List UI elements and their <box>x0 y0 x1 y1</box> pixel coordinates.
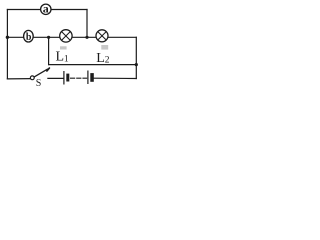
battery cell 2 <box>88 71 94 85</box>
scan ghost under lamp L2 <box>101 45 108 50</box>
switch S <box>30 68 49 89</box>
svg-text:b: b <box>26 32 32 43</box>
ammeter b <box>24 30 34 42</box>
node: left junction on rail <box>6 36 9 39</box>
svg-text:L: L <box>96 51 105 66</box>
battery cell 1 <box>64 71 69 85</box>
wire: right rail <box>135 37 137 78</box>
wire: top branch <box>7 9 87 11</box>
label L1 <box>56 50 69 65</box>
scan ghost under lamp L1 <box>60 46 67 49</box>
wire: left rail <box>6 10 8 79</box>
lamp L2 <box>96 30 108 42</box>
wire: battery dashed link <box>71 77 87 79</box>
lamp L1 <box>60 30 72 42</box>
node: bypass meets right rail <box>135 63 138 66</box>
wire: bottom left to switch <box>7 78 30 80</box>
wire: switch to battery <box>48 77 63 79</box>
node: bypass tap B <box>47 36 50 39</box>
svg-text:1: 1 <box>64 54 69 64</box>
node A (drop meets middle branch) <box>85 36 88 39</box>
wire: middle branch <box>7 36 136 38</box>
wire: top branch drop to node A <box>86 10 88 38</box>
wire: battery to right rail <box>94 77 136 79</box>
svg-text:2: 2 <box>105 55 110 65</box>
svg-text:a: a <box>43 2 49 16</box>
wire: bypass vertical from node B <box>48 37 50 64</box>
wire: bypass horizontal <box>49 64 137 66</box>
ammeter a <box>41 2 51 16</box>
label L2 <box>96 51 110 66</box>
svg-text:L: L <box>56 50 65 65</box>
svg-text:S: S <box>36 78 42 89</box>
